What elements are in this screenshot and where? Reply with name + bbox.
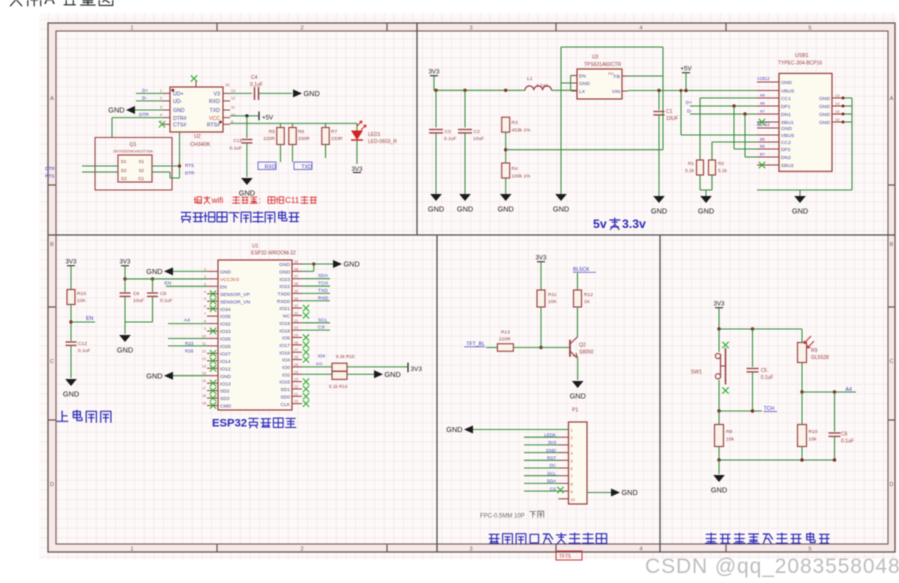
- svg-text:CC2: CC2: [781, 140, 791, 146]
- svg-text:30: 30: [294, 326, 298, 330]
- svg-text:IO13: IO13: [220, 381, 231, 387]
- svg-text:B: B: [890, 242, 894, 248]
- svg-text:USB1: USB1: [795, 53, 809, 59]
- svg-text:GND: GND: [570, 392, 586, 401]
- svg-text:GL5528: GL5528: [811, 355, 829, 361]
- svg-text:23: 23: [294, 378, 298, 382]
- svg-text:2: 2: [300, 547, 303, 553]
- svg-text::: :: [259, 196, 261, 205]
- svg-text:RTS: RTS: [185, 163, 194, 168]
- svg-text:0.1uF: 0.1uF: [229, 146, 242, 152]
- svg-text:IO25: IO25: [220, 337, 231, 343]
- svg-text:SD3: SD3: [220, 396, 230, 402]
- svg-text:14: 14: [202, 364, 206, 368]
- svg-text:4: 4: [639, 26, 642, 32]
- svg-text:R26: R26: [185, 348, 194, 353]
- svg-text:ESP32: ESP32: [212, 418, 247, 430]
- svg-text:CMD: CMD: [220, 404, 232, 410]
- svg-text:21: 21: [294, 392, 298, 396]
- svg-text:IO32: IO32: [220, 322, 231, 328]
- svg-text:13: 13: [231, 89, 235, 93]
- svg-text:A: A: [50, 96, 54, 102]
- svg-text:SDA: SDA: [547, 479, 556, 484]
- svg-text:28: 28: [294, 341, 298, 345]
- svg-text:0.1uF: 0.1uF: [250, 82, 263, 88]
- svg-text:D+: D+: [142, 88, 148, 94]
- svg-text:VIN: VIN: [612, 89, 621, 95]
- svg-text:CH340K: CH340K: [190, 142, 211, 148]
- svg-text:SBU1: SBU1: [781, 120, 794, 126]
- svg-text:4: 4: [160, 113, 162, 117]
- svg-text:SENSOR_VN: SENSOR_VN: [220, 299, 251, 305]
- svg-text:20: 20: [294, 400, 298, 404]
- svg-text:G2: G2: [121, 176, 127, 181]
- svg-text:IO16: IO16: [279, 350, 290, 356]
- svg-text:C1: C1: [666, 109, 673, 115]
- svg-text:IO0: IO0: [282, 365, 290, 371]
- svg-text:DN2: DN2: [781, 155, 791, 161]
- svg-text:8.1k R15: 8.1k R15: [336, 354, 355, 359]
- svg-text:233R: 233R: [331, 136, 343, 142]
- svg-text:10k: 10k: [726, 437, 734, 443]
- svg-text:453k 1%: 453k 1%: [512, 128, 532, 134]
- svg-text:2: 2: [204, 275, 206, 279]
- svg-text:14: 14: [835, 101, 840, 106]
- svg-text:4: 4: [204, 290, 206, 294]
- svg-text:SW1: SW1: [691, 370, 702, 376]
- svg-text:3V3: 3V3: [119, 259, 131, 266]
- svg-text:+5V: +5V: [680, 66, 692, 73]
- svg-text:35: 35: [294, 289, 298, 293]
- svg-text:3V3: 3V3: [713, 301, 725, 308]
- svg-text:B5: B5: [760, 137, 766, 142]
- svg-text:RST: RST: [547, 456, 556, 461]
- svg-text:L1: L1: [527, 76, 533, 82]
- svg-text:RXD0: RXD0: [277, 299, 290, 305]
- svg-text:1K: 1K: [584, 299, 591, 305]
- svg-text:EN: EN: [86, 316, 93, 322]
- svg-text:NC: NC: [283, 314, 291, 320]
- svg-text:3V3: 3V3: [351, 166, 363, 173]
- svg-text:2N7002DW-HE3T7AA: 2N7002DW-HE3T7AA: [113, 149, 153, 154]
- svg-text:GND: GND: [279, 269, 290, 275]
- svg-text:SENSOR_VP: SENSOR_VP: [220, 292, 250, 298]
- svg-text:SD1: SD1: [280, 387, 290, 393]
- svg-text:A4: A4: [184, 318, 190, 324]
- svg-text:0.1uF: 0.1uF: [761, 375, 774, 381]
- svg-text:EN: EN: [579, 74, 586, 80]
- svg-text:3.3v: 3.3v: [622, 217, 646, 231]
- svg-text:A5: A5: [760, 93, 766, 98]
- svg-text:11: 11: [202, 342, 206, 346]
- svg-text:GND: GND: [498, 205, 514, 214]
- svg-text:R23: R23: [185, 341, 194, 346]
- svg-text:GND: GND: [428, 205, 444, 214]
- svg-text:CS: CS: [318, 325, 326, 331]
- svg-text:IO4: IO4: [282, 358, 290, 364]
- svg-text:IO4: IO4: [318, 354, 326, 359]
- svg-text:UD-: UD-: [173, 99, 182, 105]
- svg-text:GND: GND: [698, 207, 714, 216]
- svg-text:GND: GND: [63, 390, 79, 399]
- svg-text:IO2: IO2: [316, 361, 323, 366]
- svg-text:Q1: Q1: [130, 142, 137, 148]
- svg-text:24: 24: [294, 370, 298, 374]
- svg-text:U3: U3: [592, 55, 599, 61]
- svg-text:FB: FB: [614, 74, 620, 80]
- svg-text:15: 15: [202, 372, 206, 376]
- svg-text:7: 7: [204, 312, 206, 316]
- svg-text:3V3: 3V3: [65, 259, 77, 266]
- svg-text:16: 16: [225, 83, 229, 87]
- svg-text:10K: 10K: [548, 299, 557, 305]
- svg-text:IO14: IO14: [220, 359, 231, 365]
- svg-text:U2: U2: [194, 134, 201, 140]
- svg-text:IO33: IO33: [220, 329, 231, 335]
- svg-text:9: 9: [204, 327, 206, 331]
- svg-text:IO21: IO21: [279, 306, 290, 312]
- svg-text:PG: PG: [608, 71, 614, 76]
- svg-text:6: 6: [204, 305, 206, 309]
- svg-text:R7: R7: [331, 129, 338, 135]
- svg-text:27: 27: [294, 348, 298, 352]
- svg-text:SD0: SD0: [280, 394, 290, 400]
- svg-text:4.7uH: 4.7uH: [536, 83, 548, 88]
- svg-text:GND: GND: [220, 270, 231, 276]
- svg-text:SD2: SD2: [220, 389, 230, 395]
- svg-text:D1: D1: [121, 159, 127, 164]
- svg-text:V3: V3: [214, 92, 220, 98]
- svg-text:IO5: IO5: [282, 336, 290, 342]
- svg-text:A7: A7: [760, 109, 766, 114]
- svg-text:4: 4: [639, 547, 642, 553]
- svg-text:R4: R4: [512, 166, 519, 172]
- svg-text:RTS: RTS: [45, 174, 55, 180]
- svg-text:10K: 10K: [77, 298, 86, 304]
- svg-text:17: 17: [202, 387, 206, 391]
- svg-text:IO15: IO15: [279, 380, 290, 386]
- svg-text:R6: R6: [298, 129, 305, 135]
- svg-text:C11: C11: [233, 138, 242, 144]
- svg-text:FPC-0.5MM 10P: FPC-0.5MM 10P: [480, 514, 525, 520]
- svg-text:C9: C9: [160, 291, 167, 297]
- svg-text:TYPEC-304-BCP16: TYPEC-304-BCP16: [778, 61, 822, 67]
- svg-text:0.1uF: 0.1uF: [160, 298, 173, 304]
- svg-text:IO2: IO2: [282, 372, 290, 378]
- svg-text:CC1: CC1: [781, 96, 791, 102]
- svg-text:1: 1: [204, 267, 206, 271]
- svg-text:5.1k: 5.1k: [718, 168, 728, 173]
- svg-text:ESP32-WROOM-32: ESP32-WROOM-32: [251, 251, 296, 257]
- svg-text:UD+: UD+: [173, 92, 184, 98]
- svg-text:GND: GND: [781, 126, 792, 132]
- svg-text:220R: 220R: [499, 337, 511, 343]
- svg-text:10UF: 10UF: [666, 116, 678, 122]
- svg-text:39: 39: [294, 260, 298, 264]
- svg-text:A4: A4: [846, 387, 852, 393]
- svg-text:LED-0603_R: LED-0603_R: [368, 139, 397, 145]
- svg-text:10uF: 10uF: [473, 136, 484, 142]
- svg-text:R10: R10: [809, 429, 818, 435]
- svg-text:LEDK: LEDK: [544, 432, 556, 437]
- svg-text:LX: LX: [579, 89, 586, 95]
- svg-text:R13: R13: [501, 330, 510, 336]
- svg-text:CSDN @qq_2083558048: CSDN @qq_2083558048: [645, 555, 899, 578]
- svg-text:C: C: [890, 359, 894, 365]
- svg-text:DP2: DP2: [781, 147, 791, 153]
- svg-text:IO22: IO22: [279, 284, 290, 290]
- svg-text:TXD: TXD: [210, 108, 221, 114]
- svg-text:13: 13: [835, 93, 840, 98]
- svg-text:SCL: SCL: [318, 317, 328, 323]
- svg-text:220R: 220R: [263, 136, 275, 142]
- svg-text:C: C: [50, 359, 54, 365]
- svg-text:S1: S1: [139, 159, 145, 164]
- svg-text:GND: GND: [553, 205, 569, 214]
- svg-text:3V3: 3V3: [428, 69, 440, 76]
- svg-text:GND: GND: [173, 108, 185, 114]
- svg-text:8: 8: [204, 320, 206, 324]
- svg-text:G1: G1: [138, 176, 144, 181]
- svg-text:GND: GND: [117, 346, 133, 355]
- svg-text:12: 12: [202, 349, 206, 353]
- svg-text:GND: GND: [819, 96, 830, 102]
- svg-text:TCH: TCH: [318, 281, 329, 287]
- svg-text:GND: GND: [446, 425, 462, 434]
- svg-text:0.1uF: 0.1uF: [444, 136, 457, 142]
- svg-text:18: 18: [202, 394, 206, 398]
- svg-text:16: 16: [835, 117, 840, 122]
- svg-text:GND: GND: [108, 106, 124, 115]
- svg-text:C5: C5: [761, 368, 768, 374]
- svg-text:GND: GND: [279, 262, 290, 268]
- svg-text:IO17: IO17: [279, 343, 290, 349]
- svg-text:100k 1%: 100k 1%: [512, 174, 532, 180]
- svg-text:DTR: DTR: [45, 166, 55, 172]
- svg-text:C2: C2: [474, 129, 481, 135]
- svg-text:15: 15: [835, 109, 840, 114]
- svg-text:GND: GND: [239, 189, 255, 198]
- svg-text:GND: GND: [622, 488, 638, 497]
- svg-text:+5V: +5V: [262, 115, 274, 122]
- svg-text:D: D: [50, 482, 54, 488]
- svg-text:3: 3: [469, 26, 472, 32]
- svg-text:3: 3: [469, 547, 472, 553]
- svg-text:5: 5: [204, 297, 206, 301]
- svg-text:GND: GND: [385, 370, 401, 379]
- svg-text:GND: GND: [579, 81, 590, 87]
- svg-text:26: 26: [294, 356, 298, 360]
- svg-text:RXD: RXD: [318, 295, 329, 301]
- svg-text:10: 10: [231, 113, 235, 117]
- svg-text:GND: GND: [792, 207, 808, 216]
- svg-text:D-: D-: [142, 95, 147, 101]
- svg-text:Q2: Q2: [579, 343, 586, 349]
- svg-text:wifi: wifi: [211, 196, 224, 205]
- svg-text:C4: C4: [251, 75, 258, 81]
- svg-text:R8: R8: [726, 429, 733, 435]
- svg-text:IO27: IO27: [220, 351, 231, 357]
- svg-text:DC: DC: [550, 463, 557, 468]
- svg-text:VBUS: VBUS: [781, 89, 795, 95]
- svg-text:B7: B7: [760, 152, 766, 157]
- svg-text:IO19: IO19: [279, 321, 290, 327]
- svg-text:GND: GND: [819, 120, 830, 126]
- svg-text:C8: C8: [133, 291, 140, 297]
- svg-text:3: 3: [160, 106, 162, 110]
- svg-text:GND: GND: [304, 89, 320, 98]
- svg-text:CS: CS: [550, 486, 556, 491]
- svg-text:2: 2: [160, 97, 162, 101]
- svg-text:37: 37: [294, 275, 298, 279]
- svg-text:1: 1: [130, 547, 133, 553]
- svg-text:CTS#: CTS#: [173, 123, 186, 129]
- svg-text:IO35: IO35: [220, 314, 231, 320]
- svg-text:GND: GND: [819, 104, 830, 110]
- svg-text:13: 13: [202, 357, 206, 361]
- svg-text:U1: U1: [252, 244, 259, 250]
- svg-text:S8050: S8050: [579, 350, 594, 356]
- svg-text:R11: R11: [548, 292, 557, 298]
- svg-text:B6: B6: [760, 144, 766, 149]
- svg-text:B: B: [50, 242, 54, 248]
- svg-text:TCH: TCH: [764, 406, 775, 412]
- svg-text:5.1k: 5.1k: [685, 168, 695, 173]
- svg-text:R2: R2: [718, 161, 724, 166]
- svg-text:R5: R5: [269, 129, 276, 135]
- svg-text:5.1k R14: 5.1k R14: [329, 384, 348, 389]
- svg-text:EN: EN: [165, 281, 172, 287]
- svg-text:D: D: [890, 482, 894, 488]
- svg-text:3V3: 3V3: [548, 440, 557, 445]
- svg-text:GND: GND: [146, 371, 162, 380]
- svg-text:1: 1: [160, 89, 162, 93]
- svg-text:38: 38: [294, 267, 298, 271]
- svg-text:1: 1: [130, 26, 133, 32]
- svg-text:C3: C3: [445, 129, 452, 135]
- svg-text:GND: GND: [819, 112, 830, 118]
- svg-text:TFT5: TFT5: [559, 554, 571, 560]
- svg-text:34: 34: [294, 297, 298, 301]
- svg-text:16: 16: [202, 379, 206, 383]
- svg-text:36: 36: [294, 282, 298, 286]
- svg-text:CLK: CLK: [280, 402, 290, 408]
- svg-text:R12: R12: [584, 292, 593, 298]
- svg-text:P1: P1: [572, 408, 578, 414]
- svg-text:D-: D-: [687, 109, 692, 115]
- svg-text:DN1: DN1: [781, 112, 791, 118]
- svg-text:10: 10: [202, 334, 206, 338]
- svg-text:12: 12: [231, 97, 235, 101]
- svg-text:10k: 10k: [809, 437, 817, 443]
- svg-text:TXD: TXD: [318, 288, 328, 294]
- svg-text:TPS631A60CTR: TPS631A60CTR: [584, 62, 622, 68]
- svg-text:10: 10: [571, 497, 576, 502]
- svg-text:A1B12: A1B12: [757, 76, 770, 81]
- svg-text:22: 22: [294, 385, 298, 389]
- svg-text:S2: S2: [139, 168, 145, 173]
- svg-text:RXD: RXD: [209, 99, 220, 105]
- svg-text:R9: R9: [811, 348, 818, 354]
- svg-text:3: 3: [204, 282, 206, 286]
- svg-text:32: 32: [294, 311, 298, 315]
- svg-text:GND: GND: [146, 267, 162, 276]
- svg-text:VCC: VCC: [209, 116, 220, 122]
- svg-text:A6: A6: [760, 101, 766, 106]
- svg-text:GND: GND: [220, 374, 231, 380]
- svg-text:IO12: IO12: [220, 366, 231, 372]
- svg-text:5: 5: [808, 26, 811, 32]
- svg-text:DTR: DTR: [139, 112, 149, 118]
- svg-text:0.1uF: 0.1uF: [78, 348, 91, 354]
- svg-text:EN: EN: [220, 284, 227, 290]
- svg-text:GND: GND: [457, 205, 473, 214]
- svg-text:IO18: IO18: [279, 328, 290, 334]
- svg-text:DTR#: DTR#: [173, 116, 187, 122]
- svg-text:IO26: IO26: [220, 344, 231, 350]
- svg-text:GND: GND: [344, 260, 360, 269]
- svg-text:10uF: 10uF: [133, 298, 144, 304]
- svg-text:R10: R10: [77, 291, 86, 297]
- svg-text:IO34: IO34: [220, 307, 231, 313]
- svg-text:330R: 330R: [298, 136, 310, 142]
- svg-text:GND: GND: [711, 486, 727, 495]
- svg-text:TXD0: TXD0: [277, 292, 290, 298]
- svg-text:IO23: IO23: [279, 277, 290, 283]
- svg-text:A: A: [44, 0, 55, 8]
- svg-text:25: 25: [294, 363, 298, 367]
- svg-text:GND: GND: [546, 448, 557, 453]
- svg-text:VCC3V3: VCC3V3: [220, 277, 239, 283]
- svg-text:SCL: SCL: [547, 471, 556, 476]
- svg-text:RTS#: RTS#: [207, 123, 220, 129]
- svg-text:C12: C12: [78, 341, 87, 347]
- svg-text:5v: 5v: [593, 217, 607, 231]
- svg-text:LED1: LED1: [368, 132, 381, 138]
- svg-text:GND: GND: [781, 80, 792, 86]
- svg-text:DTR: DTR: [185, 171, 195, 176]
- svg-text:D2: D2: [121, 168, 127, 173]
- svg-text:C11: C11: [285, 196, 300, 205]
- svg-text:SDA: SDA: [318, 273, 329, 279]
- svg-text:VBUS: VBUS: [781, 133, 795, 139]
- svg-text:GND: GND: [651, 207, 667, 216]
- svg-text:31: 31: [294, 319, 298, 323]
- svg-text:33: 33: [294, 304, 298, 308]
- svg-text:11: 11: [231, 106, 235, 110]
- svg-text:29: 29: [294, 334, 298, 338]
- svg-text:R3: R3: [512, 120, 519, 126]
- svg-text:19: 19: [202, 402, 206, 406]
- svg-text:SBU2: SBU2: [781, 163, 794, 169]
- svg-text:C6: C6: [841, 432, 848, 438]
- svg-text:3V3: 3V3: [411, 366, 423, 373]
- svg-text:A: A: [890, 96, 894, 102]
- svg-text:2: 2: [300, 26, 303, 32]
- svg-text:5: 5: [808, 547, 811, 553]
- svg-text:D+: D+: [686, 100, 692, 106]
- svg-text:R1: R1: [688, 161, 694, 166]
- svg-text:DP1: DP1: [781, 104, 791, 110]
- svg-text:3V3: 3V3: [535, 255, 547, 262]
- svg-text:0.1uF: 0.1uF: [841, 439, 854, 445]
